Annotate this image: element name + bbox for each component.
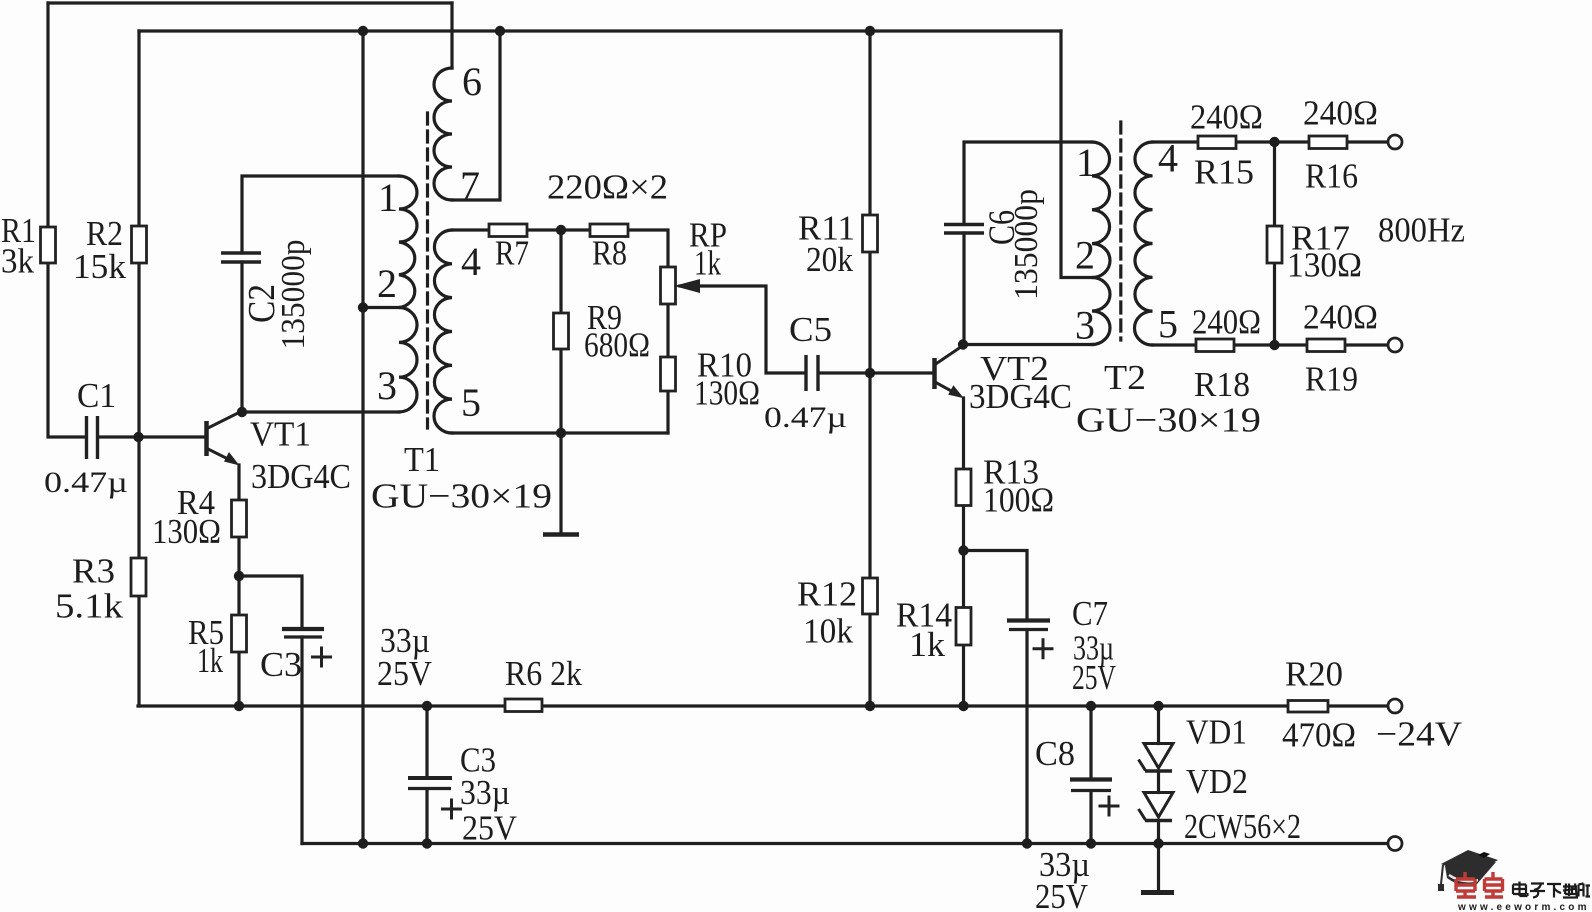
transistor VT2 3DG4C — [935, 346, 964, 396]
svg-text:VD1: VD1 — [1186, 713, 1247, 752]
node R12 on main rail — [865, 701, 875, 711]
wire VT1 collector to T1 winding 3 — [242, 410, 399, 413]
svg-text:220Ω×2: 220Ω×2 — [547, 168, 668, 207]
wire RP to R10 link — [666, 304, 669, 357]
wire R11/R12 vertical column — [868, 31, 871, 706]
svg-text:R16: R16 — [1305, 157, 1358, 196]
svg-text:680Ω: 680Ω — [584, 326, 650, 365]
svg-text:5: 5 — [1158, 302, 1178, 347]
svg-text:135000p: 135000p — [1008, 189, 1045, 300]
resistor R3 5.1k — [131, 558, 146, 596]
wire T1 winding6 top lead — [450, 3, 453, 68]
svg-text:100Ω: 100Ω — [983, 481, 1054, 520]
svg-text:3DG4C: 3DG4C — [251, 457, 351, 496]
svg-text:R6 2k: R6 2k — [505, 654, 582, 693]
svg-text:25V: 25V — [462, 809, 517, 848]
node feedback line on return rail — [358, 838, 368, 848]
svg-text:15k: 15k — [73, 247, 127, 286]
capacitor C7 33u plates — [1007, 618, 1050, 622]
wire C2 top lead to T1 winding 1 — [242, 176, 399, 253]
node rail2/winding7 — [495, 26, 505, 36]
svg-text:33µ: 33µ — [460, 773, 510, 812]
resistor R2 15k — [132, 226, 147, 263]
wire R18 to R19 segment — [1234, 343, 1307, 346]
svg-text:C8: C8 — [1035, 734, 1075, 773]
node C7 on return rail — [1022, 838, 1032, 848]
node R5 on main rail — [234, 701, 244, 711]
node VT1 collector — [237, 407, 247, 417]
svg-text:3: 3 — [377, 363, 397, 408]
svg-text:R7: R7 — [495, 234, 529, 273]
svg-text:C7: C7 — [1072, 594, 1108, 633]
capacitor C6 135000p plates — [944, 225, 984, 234]
wire VT1 emitter column through R4 R5 — [237, 465, 240, 706]
svg-text:2: 2 — [377, 261, 397, 306]
wire rail2 (second supply rail) — [139, 29, 1061, 32]
svg-text:C3: C3 — [260, 645, 302, 684]
wire R1 branch from top border down to C1 — [48, 3, 85, 437]
svg-text:1k: 1k — [197, 641, 223, 680]
capacitor C5 0.47u plates — [806, 355, 818, 391]
ground symbol T1 secondary — [543, 532, 579, 537]
wire T1 winding7 bottom lead to rail2 — [452, 31, 500, 200]
node R15/R16/R17 — [1269, 137, 1279, 147]
wire VD2 to return rail and ground — [1157, 821, 1160, 891]
wire T1 ground lead — [559, 433, 562, 532]
wire R4/R5 junction to C3 — [239, 576, 302, 628]
wire C3b top lead — [425, 706, 428, 777]
node rail2/R11 — [865, 26, 875, 36]
svg-text:R8: R8 — [592, 234, 627, 273]
svg-text:135000p: 135000p — [275, 240, 312, 350]
svg-text:7: 7 — [460, 163, 480, 208]
svg-text:25V: 25V — [1072, 658, 1116, 697]
node C3b on main rail — [422, 701, 432, 711]
wire VT2 collector to T2 winding 3 — [963, 343, 1092, 346]
svg-text:VD2: VD2 — [1186, 762, 1248, 801]
capacitor C3 33u plus sign — [311, 647, 332, 668]
svg-text:240Ω: 240Ω — [1190, 98, 1263, 137]
node R13/R14/C7 — [958, 545, 968, 555]
svg-text:R3: R3 — [72, 552, 115, 591]
transformer T2 core — [1119, 122, 1122, 340]
capacitor C1 0.47u plates — [87, 416, 98, 459]
terminal return rail — [1388, 837, 1402, 851]
watermark black chinese site name — [1513, 882, 1590, 898]
ground symbol zener chain — [1141, 890, 1174, 895]
capacitor C3b 33u filter plates — [408, 776, 452, 780]
node R9 bottom — [556, 428, 566, 438]
svg-text:25V: 25V — [377, 654, 432, 693]
resistor R6 2k — [505, 699, 542, 712]
wire C8 bottom lead — [1089, 792, 1092, 844]
watermark red text chongchong — [1456, 872, 1503, 897]
wire center feedback vertical line — [361, 31, 364, 844]
transformer T1 core — [426, 113, 429, 428]
wire C1 right lead to VT1 base — [98, 435, 205, 438]
resistor R13 100ohm — [956, 469, 971, 506]
resistor R19 240ohm — [1307, 339, 1345, 352]
wire C2 bottom lead to collector node — [240, 262, 243, 412]
wire T2 secondary top to R15 — [1153, 140, 1199, 143]
wire R17 vertical column — [1273, 142, 1276, 345]
wire R13/R14 junction to C7 — [964, 551, 1028, 620]
wire R9 top lead — [559, 230, 562, 313]
svg-text:130Ω: 130Ω — [694, 374, 760, 413]
svg-text:T2: T2 — [1104, 358, 1146, 397]
svg-text:5: 5 — [461, 380, 481, 425]
svg-text:1: 1 — [1076, 140, 1096, 185]
svg-text:3k: 3k — [1, 242, 34, 281]
node R7/R8/R9 — [556, 225, 566, 235]
node VD2 on return rail — [1153, 838, 1163, 848]
svg-text:20k: 20k — [806, 240, 853, 279]
svg-text:130Ω: 130Ω — [1287, 246, 1362, 285]
node C5/R11/R12/base — [865, 368, 875, 378]
svg-text:GU−30×19: GU−30×19 — [1076, 401, 1261, 440]
svg-text:1k: 1k — [909, 625, 946, 664]
wire T2 center tap from rail2 — [1061, 31, 1092, 278]
node VD1 on main rail — [1153, 701, 1163, 711]
wire top border rail — [48, 1, 452, 4]
wire VD1 top lead — [1157, 706, 1160, 744]
svg-text:R12: R12 — [797, 575, 857, 614]
capacitor C8 33u plates — [1070, 777, 1112, 781]
node R14 on main rail — [958, 701, 968, 711]
wire T2 secondary bottom to R18 — [1153, 343, 1197, 346]
wire R15 to R16 segment — [1236, 140, 1309, 143]
output terminal upper 800Hz — [1388, 135, 1402, 149]
wire VT2 base lead — [870, 371, 933, 374]
resistor R7 220ohm — [489, 224, 527, 237]
svg-text:C5: C5 — [789, 310, 832, 349]
transformer T1 primary winding (1-2-3) — [399, 176, 417, 412]
resistor R20 470ohm — [1288, 701, 1328, 713]
svg-text:0.47µ: 0.47µ — [764, 401, 847, 434]
wire T1 secondary top lead to R7 — [452, 228, 489, 231]
svg-text:470Ω: 470Ω — [1282, 716, 1356, 755]
capacitor C8 plus sign — [1099, 796, 1120, 817]
capacitor C2 135000p plates — [221, 253, 261, 262]
svg-text:GU−30×19: GU−30×19 — [371, 477, 552, 516]
wire R8 to RP corner — [628, 230, 668, 267]
svg-text:240Ω: 240Ω — [1303, 94, 1378, 133]
resistor R4 130ohm — [232, 500, 247, 537]
transistor VT1 3DG4C — [207, 411, 243, 463]
capacitor C7 plus sign — [1033, 638, 1054, 659]
wire VT2 emitter column through R13 R14 — [962, 398, 965, 706]
wire C8 top lead — [1089, 706, 1092, 779]
potentiometer RP 1k body — [661, 267, 676, 304]
node C3b on return rail — [422, 838, 432, 848]
wire VD1 to VD2 link — [1157, 771, 1160, 793]
svg-text:1: 1 — [378, 175, 398, 220]
svg-text:R18: R18 — [1194, 365, 1250, 404]
wire C7 bottom lead to return rail — [1025, 631, 1028, 844]
svg-text:R20: R20 — [1285, 655, 1343, 694]
terminal -24V — [1388, 699, 1402, 713]
svg-text:5.1k: 5.1k — [55, 587, 124, 626]
wire R2/R3 vertical column — [137, 31, 140, 706]
svg-text:R15: R15 — [1194, 153, 1254, 192]
node C8 on main rail — [1086, 701, 1096, 711]
wire C5 to base node — [819, 371, 870, 374]
wire T1 primary center tap — [363, 306, 399, 309]
svg-text:6: 6 — [462, 59, 482, 104]
svg-text:4: 4 — [461, 239, 481, 284]
potentiometer RP wiper arrow — [674, 279, 700, 293]
wire R16 to output terminal — [1347, 140, 1388, 143]
transformer T1 secondary winding (4-5) — [434, 230, 452, 433]
wire C6 top lead to T2 winding 1 — [964, 142, 1092, 224]
svg-text:−24V: −24V — [1376, 715, 1462, 754]
resistor R1 3k — [41, 227, 56, 263]
wire R9 bottom lead — [559, 349, 562, 433]
svg-text:0.47µ: 0.47µ — [44, 466, 128, 499]
wire main negative rail — [138, 704, 1388, 707]
svg-text:C1: C1 — [77, 376, 116, 415]
zener diode VD1 — [1139, 744, 1174, 772]
transformer T1 feedback winding (6-7) — [434, 68, 452, 200]
wire C3 bottom lead to return rail — [300, 637, 303, 844]
resistor R11 20k — [863, 215, 878, 252]
resistor R9 680ohm — [554, 313, 569, 349]
wire T1 secondary bottom to R9/R10 — [452, 431, 668, 434]
svg-text:3: 3 — [1075, 303, 1095, 348]
svg-text:2CW56×2: 2CW56×2 — [1184, 807, 1301, 846]
svg-text:130Ω: 130Ω — [152, 512, 221, 551]
wire RP wiper to C5 — [680, 286, 805, 373]
wire C6 bottom lead — [962, 233, 965, 345]
node VT2 collector/C6 — [958, 339, 968, 349]
resistor R10 130ohm — [661, 357, 676, 391]
resistor R12 10k — [863, 578, 878, 614]
node rail2/feedback line — [358, 26, 368, 36]
transformer T2 primary winding (1-2-3) — [1092, 142, 1110, 345]
resistor R8 220ohm — [590, 224, 628, 237]
svg-text:T1: T1 — [404, 440, 440, 479]
svg-text:10k: 10k — [803, 612, 853, 651]
svg-text:VT1: VT1 — [250, 415, 311, 454]
node C1/R2/R3/base — [133, 432, 143, 442]
watermark graduation cap logo — [1438, 850, 1498, 891]
wire R10 bottom lead — [666, 391, 669, 433]
capacitor C3b plus sign — [441, 799, 462, 820]
svg-text:4: 4 — [1158, 136, 1178, 181]
wire R19 to output terminal — [1345, 343, 1388, 346]
node R4/R5/C3 — [234, 571, 244, 581]
resistor R15 240ohm — [1198, 136, 1236, 149]
svg-text:2: 2 — [1075, 233, 1095, 278]
capacitor C3 33u electrolytic plates (emitter bypass) — [282, 627, 324, 631]
node R18/R19/R17 — [1269, 340, 1279, 350]
node C8 on return rail — [1086, 838, 1096, 848]
svg-text:240Ω: 240Ω — [1192, 303, 1261, 342]
resistor R5 1k — [232, 615, 247, 652]
svg-text:240Ω: 240Ω — [1303, 298, 1378, 337]
resistor R17 130ohm — [1267, 226, 1282, 263]
node T1 center tap — [358, 302, 368, 312]
resistor R18 240ohm — [1196, 339, 1234, 352]
transformer T2 secondary winding (4-5) — [1134, 142, 1152, 345]
svg-text:1k: 1k — [694, 244, 721, 283]
wire R7 to R8 segment — [527, 228, 590, 231]
resistor R16 240ohm — [1309, 136, 1347, 149]
wire C3b bottom lead — [425, 789, 428, 844]
svg-text:25V: 25V — [1035, 877, 1088, 912]
svg-text:800Hz: 800Hz — [1378, 211, 1465, 250]
output terminal lower 800Hz — [1388, 338, 1402, 352]
svg-text:R19: R19 — [1305, 360, 1358, 399]
wire bottom return rail — [302, 842, 1388, 845]
svg-text:www.eeworm.com: www.eeworm.com — [1457, 902, 1590, 912]
svg-text:3DG4C: 3DG4C — [969, 377, 1072, 416]
resistor R14 1k — [956, 608, 971, 646]
zener diode VD2 — [1139, 793, 1174, 821]
